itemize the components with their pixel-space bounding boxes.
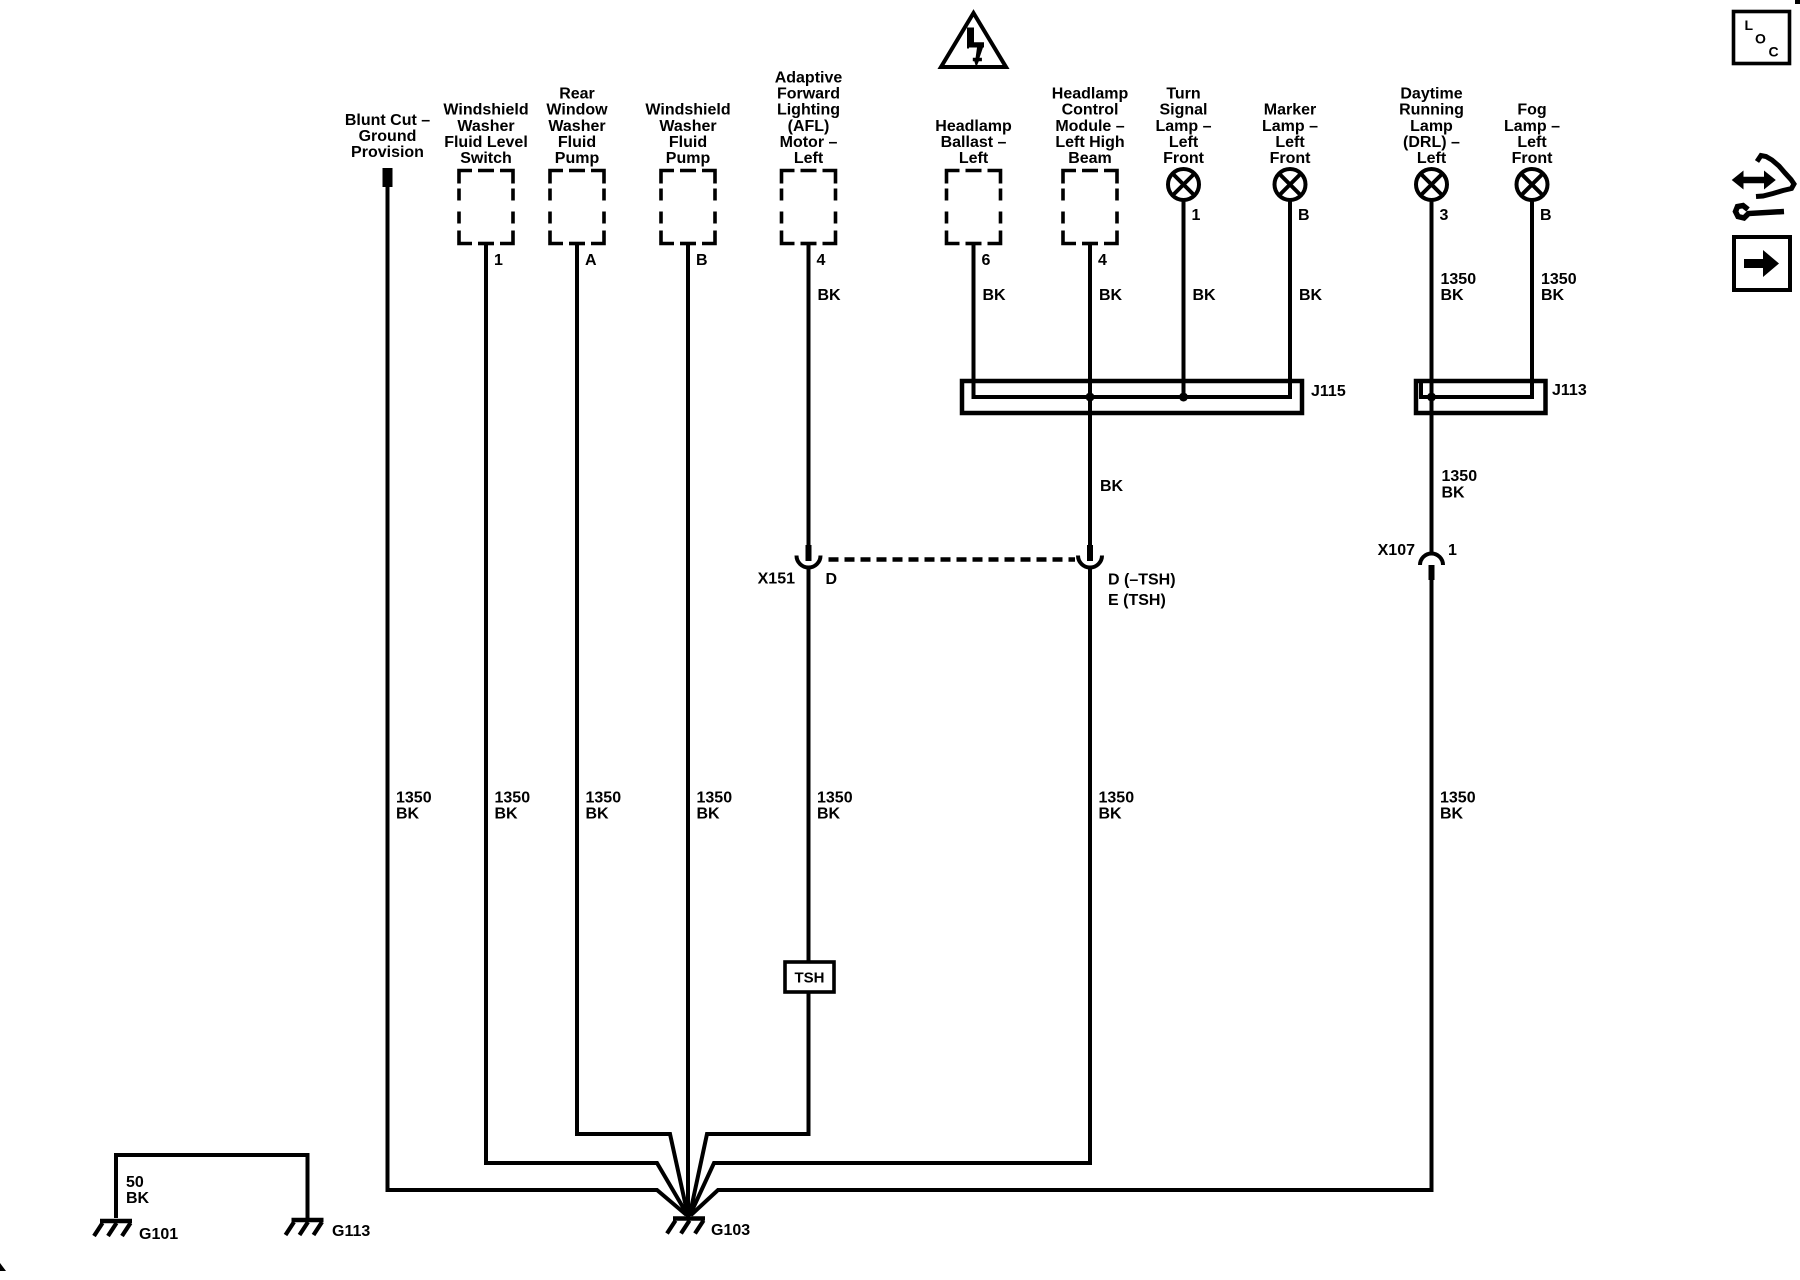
warning triangle with lightning bolt bbox=[941, 13, 1006, 67]
svg-text:BK: BK bbox=[396, 806, 420, 823]
svg-text:Forward: Forward bbox=[777, 86, 840, 103]
svg-text:BK: BK bbox=[697, 806, 721, 823]
svg-text:Lamp –: Lamp – bbox=[1504, 118, 1560, 135]
label: Windshield Washer Fluid Pump bbox=[645, 102, 730, 167]
svg-text:Front: Front bbox=[1512, 150, 1554, 167]
connector box: AFL Motor - Left bbox=[782, 171, 836, 244]
svg-text:Switch: Switch bbox=[460, 150, 512, 167]
scan artifact top-right bbox=[1795, 0, 1800, 4]
svg-text:Lamp –: Lamp – bbox=[1155, 118, 1211, 135]
svg-text:Ground: Ground bbox=[359, 128, 417, 145]
svg-text:50: 50 bbox=[126, 1174, 144, 1191]
svg-text:G103: G103 bbox=[711, 1222, 750, 1239]
svg-text:BK: BK bbox=[126, 1190, 150, 1207]
svg-text:BK: BK bbox=[1440, 806, 1464, 823]
wire: module wire through J115 bbox=[1088, 397, 1092, 413]
wire: blunt cut ground provision 1350 BK bbox=[388, 185, 687, 1215]
svg-text:BK: BK bbox=[817, 806, 841, 823]
svg-text:Left: Left bbox=[794, 150, 824, 167]
svg-text:Left: Left bbox=[1517, 134, 1547, 151]
svg-text:1350: 1350 bbox=[396, 790, 432, 807]
connector box: Headlamp Ballast - Left bbox=[947, 171, 1001, 244]
svg-text:Provision: Provision bbox=[351, 144, 424, 161]
svg-text:4: 4 bbox=[1098, 252, 1107, 269]
svg-text:Left: Left bbox=[1275, 134, 1305, 151]
wire: windshield washer pump 1350 BK bbox=[686, 244, 690, 1218]
svg-text:Daytime: Daytime bbox=[1400, 86, 1462, 103]
svg-text:Lamp –: Lamp – bbox=[1262, 118, 1318, 135]
svg-text:Headlamp: Headlamp bbox=[935, 118, 1012, 135]
LOC locator box bbox=[1734, 12, 1790, 64]
connector box: Windshield Washer Fluid Level Switch bbox=[459, 171, 513, 244]
svg-text:Control: Control bbox=[1062, 102, 1119, 119]
svg-text:BK: BK bbox=[586, 806, 610, 823]
svg-text:G101: G101 bbox=[139, 1226, 178, 1243]
svg-text:TSH: TSH bbox=[795, 970, 825, 987]
svg-text:Pump: Pump bbox=[555, 150, 600, 167]
ground G101 bbox=[94, 1221, 132, 1236]
label: Windshield Washer Fluid Level Switch bbox=[443, 102, 528, 167]
svg-text:BK: BK bbox=[1099, 287, 1123, 304]
label: Fog Lamp - Left Front bbox=[1504, 102, 1560, 167]
svg-text:Motor –: Motor – bbox=[780, 134, 838, 151]
svg-text:(DRL) –: (DRL) – bbox=[1403, 134, 1460, 151]
wire: rear window washer pump 1350 BK bbox=[577, 244, 688, 1217]
svg-text:Fluid Level: Fluid Level bbox=[444, 134, 528, 151]
svg-text:Washer: Washer bbox=[548, 118, 605, 135]
svg-text:Lamp: Lamp bbox=[1410, 118, 1453, 135]
svg-text:(AFL): (AFL) bbox=[788, 118, 830, 135]
label: Blunt Cut - Ground Provision bbox=[345, 112, 430, 161]
wire: headlamp ballast BK bbox=[972, 244, 976, 382]
svg-text:Adaptive: Adaptive bbox=[775, 70, 843, 87]
label: Headlamp Ballast - Left bbox=[935, 118, 1012, 167]
svg-text:A: A bbox=[585, 252, 597, 269]
svg-text:4: 4 bbox=[817, 252, 826, 269]
ground G113 bbox=[286, 1220, 324, 1235]
next-page arrow box icon bbox=[1734, 237, 1790, 290]
svg-text:3: 3 bbox=[1440, 207, 1449, 224]
svg-text:6: 6 bbox=[982, 252, 991, 269]
wire: AFL motor 1350 BK lower bbox=[807, 566, 811, 962]
svg-text:1: 1 bbox=[494, 252, 503, 269]
label: Rear Window Washer Fluid Pump bbox=[546, 86, 608, 167]
svg-text:1350: 1350 bbox=[495, 790, 531, 807]
scan artifact bottom-left bbox=[0, 1263, 6, 1271]
svg-text:G113: G113 bbox=[332, 1223, 370, 1240]
svg-text:Module –: Module – bbox=[1055, 118, 1124, 135]
blunt cut terminal mark bbox=[383, 168, 393, 187]
svg-text:Headlamp: Headlamp bbox=[1052, 86, 1129, 103]
in-line connector X151 terminal D/E (module side) bbox=[1078, 545, 1102, 568]
junction dot (turn signal wire at J115) bbox=[1179, 393, 1188, 402]
svg-text:1350: 1350 bbox=[817, 790, 853, 807]
svg-text:Washer: Washer bbox=[457, 118, 514, 135]
svg-text:Left: Left bbox=[1417, 150, 1447, 167]
svg-text:Signal: Signal bbox=[1159, 102, 1207, 119]
svg-text:Left: Left bbox=[959, 150, 989, 167]
wire: ground strap 50 BK G101-G113 bbox=[116, 1155, 308, 1218]
svg-text:BK: BK bbox=[983, 287, 1007, 304]
wire: DRL lamp 1350 BK bbox=[1430, 200, 1434, 554]
wire: DRL 1350 BK below X107 bbox=[691, 580, 1432, 1215]
svg-text:E (TSH): E (TSH) bbox=[1108, 592, 1166, 609]
lamp symbol: Fog Lamp - Left Front bbox=[1517, 169, 1548, 200]
wire: washer fluid level switch 1350 BK bbox=[486, 244, 688, 1216]
splice pack J113 bbox=[1416, 381, 1546, 413]
svg-text:B: B bbox=[1298, 207, 1310, 224]
svg-text:Turn: Turn bbox=[1166, 86, 1200, 103]
svg-text:O: O bbox=[1755, 31, 1766, 47]
svg-text:Fog: Fog bbox=[1517, 102, 1546, 119]
svg-text:1: 1 bbox=[1192, 207, 1201, 224]
wire: turn signal lamp BK bbox=[1182, 200, 1186, 397]
connector box: Windshield Washer Fluid Pump bbox=[661, 171, 715, 244]
svg-text:1350: 1350 bbox=[1441, 271, 1477, 288]
svg-text:Windshield: Windshield bbox=[443, 102, 528, 119]
svg-text:Beam: Beam bbox=[1068, 150, 1112, 167]
in-line connector X151 terminal D (AFL side) bbox=[797, 545, 821, 568]
svg-text:1350: 1350 bbox=[697, 790, 733, 807]
svg-text:Lighting: Lighting bbox=[777, 102, 840, 119]
svg-text:Window: Window bbox=[546, 102, 608, 119]
svg-text:Left High: Left High bbox=[1055, 134, 1124, 151]
svg-text:BK: BK bbox=[1442, 485, 1466, 502]
svg-text:1350: 1350 bbox=[1099, 790, 1135, 807]
svg-text:D (–TSH): D (–TSH) bbox=[1108, 572, 1176, 589]
svg-text:1350: 1350 bbox=[1440, 790, 1476, 807]
lamp symbol: Daytime Running Lamp (DRL) - Left bbox=[1416, 169, 1447, 200]
splice pack J115 bbox=[962, 381, 1302, 413]
svg-text:B: B bbox=[696, 252, 708, 269]
label: Daytime Running Lamp (DRL) - Left bbox=[1399, 86, 1464, 167]
svg-text:Fluid: Fluid bbox=[558, 134, 596, 151]
label: Marker Lamp - Left Front bbox=[1262, 102, 1318, 167]
label: Headlamp Control Module - Left High Beam bbox=[1052, 86, 1129, 167]
svg-text:BK: BK bbox=[818, 287, 842, 304]
wire: headlamp control module 1350 BK lower bbox=[690, 566, 1090, 1215]
svg-text:Ballast –: Ballast – bbox=[941, 134, 1007, 151]
svg-text:1350: 1350 bbox=[586, 790, 622, 807]
wire: AFL motor 1350 BK upper bbox=[807, 244, 811, 547]
svg-text:Front: Front bbox=[1163, 150, 1205, 167]
svg-text:Rear: Rear bbox=[559, 86, 595, 103]
page-jump scribble icon bbox=[1733, 156, 1795, 219]
dashed harness link line X151 bbox=[829, 557, 1076, 562]
svg-text:Pump: Pump bbox=[666, 150, 711, 167]
wire: fog lamp 1350 BK bbox=[1530, 200, 1534, 381]
svg-text:X151: X151 bbox=[758, 571, 795, 588]
ground G103 bbox=[667, 1219, 705, 1234]
svg-text:BK: BK bbox=[1100, 478, 1124, 495]
svg-text:B: B bbox=[1540, 207, 1552, 224]
label: Turn Signal Lamp - Left Front bbox=[1155, 86, 1211, 167]
svg-text:D: D bbox=[826, 571, 838, 588]
svg-text:Left: Left bbox=[1169, 134, 1199, 151]
svg-text:Running: Running bbox=[1399, 102, 1464, 119]
svg-text:BK: BK bbox=[1099, 806, 1123, 823]
svg-text:J115: J115 bbox=[1311, 383, 1346, 400]
svg-text:L: L bbox=[1745, 17, 1754, 33]
svg-text:BK: BK bbox=[1541, 287, 1565, 304]
wire: AFL motor 1350 BK below TSH bbox=[690, 992, 809, 1216]
svg-text:1: 1 bbox=[1448, 542, 1457, 559]
TSH in-line component bbox=[785, 962, 834, 992]
svg-text:Blunt Cut –: Blunt Cut – bbox=[345, 112, 430, 129]
wire: headlamp control module BK bbox=[1088, 244, 1092, 547]
wire: marker lamp BK bbox=[1288, 200, 1292, 381]
svg-text:J113: J113 bbox=[1552, 382, 1587, 399]
wire: DRL wire through J113 bbox=[1430, 397, 1434, 413]
svg-text:Windshield: Windshield bbox=[645, 102, 730, 119]
in-line connector X107 bbox=[1420, 554, 1443, 581]
svg-text:C: C bbox=[1769, 44, 1779, 60]
lamp symbol: Marker Lamp - Left Front bbox=[1275, 169, 1306, 200]
label: Adaptive Forward Lighting (AFL) Motor - Left bbox=[775, 70, 843, 168]
lamp symbol: Turn Signal Lamp - Left Front bbox=[1168, 169, 1199, 200]
junction dot (DRL wire at J113) bbox=[1427, 393, 1436, 402]
connector box: Headlamp Control Module - Left High Beam bbox=[1063, 171, 1117, 244]
svg-text:1350: 1350 bbox=[1442, 468, 1478, 485]
svg-text:Marker: Marker bbox=[1264, 102, 1316, 119]
svg-text:1350: 1350 bbox=[1541, 271, 1577, 288]
svg-text:BK: BK bbox=[1193, 287, 1217, 304]
svg-text:X107: X107 bbox=[1378, 542, 1415, 559]
svg-text:BK: BK bbox=[1441, 287, 1465, 304]
junction dot (module wire at J115) bbox=[1086, 393, 1095, 402]
svg-text:Washer: Washer bbox=[659, 118, 716, 135]
svg-text:BK: BK bbox=[1299, 287, 1323, 304]
svg-text:BK: BK bbox=[495, 806, 519, 823]
connector box: Rear Window Washer Fluid Pump bbox=[550, 171, 604, 244]
svg-text:Front: Front bbox=[1270, 150, 1312, 167]
svg-text:Fluid: Fluid bbox=[669, 134, 707, 151]
